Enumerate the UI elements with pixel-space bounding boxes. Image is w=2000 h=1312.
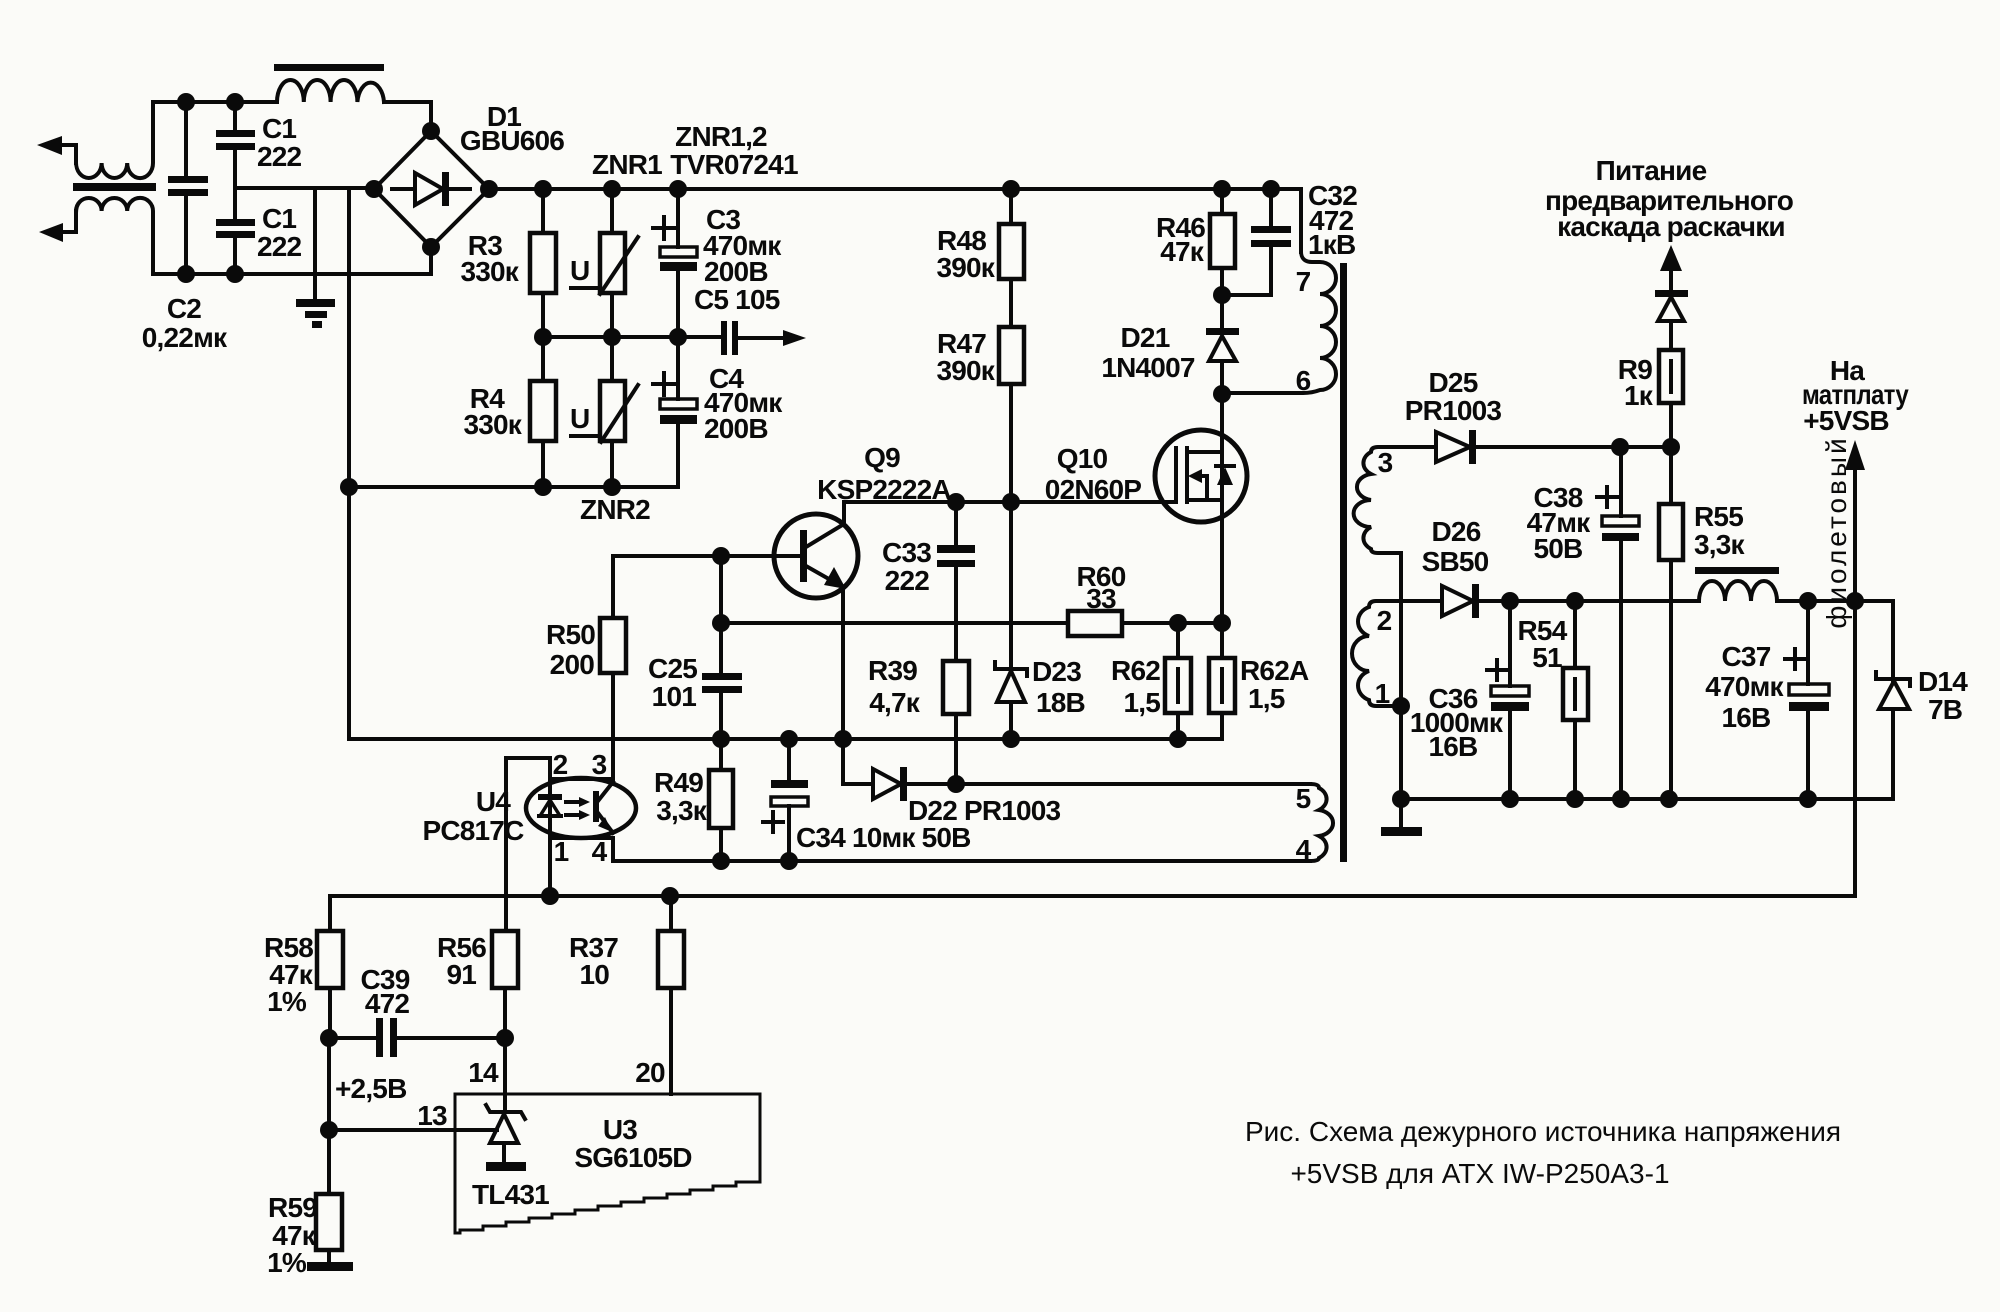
svg-text:472: 472 — [365, 988, 410, 1019]
svg-text:390к: 390к — [936, 252, 995, 283]
svg-text:4,7к: 4,7к — [869, 687, 921, 718]
svg-text:Питание: Питание — [1596, 155, 1707, 186]
C36 plus — [1487, 660, 1507, 680]
AC input arrow N — [39, 223, 63, 242]
svg-text:C34 10мк 50В: C34 10мк 50В — [796, 822, 971, 853]
svg-text:5: 5 — [1296, 783, 1311, 814]
capacitor C34 — [787, 739, 791, 861]
+5VSB feedback rail — [330, 468, 1855, 931]
svg-text:16В: 16В — [1722, 702, 1771, 733]
C37 plus — [1785, 649, 1805, 669]
capacitor C1 top — [233, 102, 237, 188]
diode D25 — [1436, 432, 1470, 462]
svg-text:+5VSB: +5VSB — [1803, 405, 1889, 436]
transformer T1 top winding — [76, 102, 153, 178]
svg-text:91: 91 — [446, 959, 476, 990]
secondary ground — [1399, 799, 1403, 828]
svg-text:6: 6 — [1296, 365, 1311, 396]
capacitor C36 — [1508, 601, 1512, 799]
output inductor core — [1695, 567, 1779, 574]
svg-text:3,3к: 3,3к — [1694, 529, 1746, 560]
Q10 body stub with arrow — [1197, 476, 1207, 500]
svg-text:D25: D25 — [1429, 367, 1478, 398]
pin 13 wire — [329, 1128, 497, 1132]
Q10 gate bar — [1174, 448, 1178, 502]
svg-text:TVR07241: TVR07241 — [670, 149, 798, 180]
svg-text:0,22мк: 0,22мк — [142, 322, 228, 353]
transformer T1 core — [73, 183, 156, 191]
capacitor C4 — [349, 337, 678, 487]
svg-text:ZNR2: ZNR2 — [580, 494, 650, 525]
Q10 body diode — [1216, 464, 1234, 468]
resistor R47 — [999, 327, 1024, 384]
secondary ground bus — [1401, 797, 1893, 801]
gate drive wire (Q9 collector to Q10 gate) — [844, 500, 1176, 504]
svg-text:330к: 330к — [463, 409, 522, 440]
resistor R59 — [327, 1130, 331, 1263]
svg-text:GBU606: GBU606 — [460, 125, 564, 156]
prestage diode — [1669, 268, 1673, 291]
zener D23 — [1009, 502, 1013, 739]
primary winding 7-6 — [1222, 252, 1336, 393]
svg-text:2: 2 — [1377, 605, 1392, 636]
R59 ground — [307, 1262, 353, 1271]
ground G1 — [296, 299, 335, 307]
svg-text:13: 13 — [417, 1100, 447, 1131]
svg-text:20: 20 — [635, 1057, 665, 1088]
svg-text:1N4007: 1N4007 — [1101, 352, 1195, 383]
resistor R9 — [1669, 321, 1673, 447]
capacitor C38 — [1619, 447, 1623, 799]
svg-text:1,5: 1,5 — [1248, 683, 1285, 714]
varistor ZNR1 — [610, 189, 614, 337]
svg-text:18В: 18В — [1036, 687, 1085, 718]
svg-text:Q10: Q10 — [1057, 443, 1108, 474]
svg-text:Рис. Схема дежурного источника: Рис. Схема дежурного источника напряжени… — [1245, 1116, 1841, 1147]
C4 plus — [653, 373, 675, 395]
svg-text:4: 4 — [592, 836, 608, 867]
svg-text:47к: 47к — [1160, 236, 1205, 267]
resistor R49 — [719, 739, 723, 861]
resistor R54 — [1573, 601, 1577, 799]
wire arrowL to winding — [60, 145, 76, 163]
TL431 shunt reference — [486, 1105, 525, 1119]
U4 phototransistor — [593, 791, 599, 822]
top DC bus — [489, 189, 1301, 252]
svg-text:101: 101 — [652, 681, 697, 712]
svg-text:390к: 390к — [936, 355, 995, 386]
U4 pin1 wire — [548, 838, 552, 896]
capacitor C33 — [954, 502, 958, 661]
svg-text:R50: R50 — [546, 619, 595, 650]
resistor R48 — [1009, 189, 1013, 327]
svg-text:200: 200 — [550, 649, 595, 680]
svg-text:R62: R62 — [1111, 655, 1160, 686]
AC input arrow L — [37, 136, 62, 155]
pin 14 wire — [503, 1038, 507, 1112]
svg-text:1: 1 — [1375, 678, 1390, 709]
resistor R46 — [1220, 189, 1224, 295]
svg-text:PC817C: PC817C — [422, 815, 524, 846]
svg-text:R62A: R62A — [1240, 655, 1309, 686]
base bias wire R60 row — [721, 621, 1222, 625]
svg-text:222: 222 — [257, 231, 302, 262]
capacitor C39 — [329, 1036, 505, 1040]
secondary winding 3 — [1354, 447, 1436, 799]
svg-text:222: 222 — [885, 565, 930, 596]
U4 light arrows — [566, 802, 580, 815]
C38 plus — [1597, 487, 1617, 507]
resistor R39 — [943, 661, 969, 714]
svg-text:10: 10 — [579, 959, 609, 990]
svg-text:R59: R59 — [268, 1192, 317, 1223]
svg-text:C37: C37 — [1722, 641, 1771, 672]
svg-text:C1: C1 — [262, 113, 296, 144]
svg-text:U3: U3 — [603, 1114, 637, 1145]
capacitor C1 bottom — [233, 188, 237, 274]
svg-text:TL431: TL431 — [472, 1179, 549, 1210]
D1 internal diode — [392, 187, 470, 191]
resistor R60 — [1068, 611, 1122, 636]
primary winding 5-4 — [1310, 784, 1333, 861]
Q10 source stub — [1187, 498, 1222, 502]
Q9 base wire from R50 — [613, 554, 800, 558]
svg-text:C5 105: C5 105 — [694, 284, 780, 315]
svg-text:Q9: Q9 — [864, 442, 900, 473]
U4 pin4 wire — [611, 838, 615, 861]
svg-text:SB50: SB50 — [1422, 546, 1489, 577]
resistor R55 — [1669, 447, 1673, 799]
transformer core — [1340, 263, 1347, 862]
lower bus (winding4 to U4 pin4) — [613, 859, 1310, 863]
svg-text:D26: D26 — [1432, 516, 1481, 547]
svg-text:7В: 7В — [1928, 694, 1962, 725]
resistor R3 — [541, 189, 545, 337]
diode D22 branch — [843, 739, 873, 784]
svg-text:C25: C25 — [648, 653, 697, 684]
svg-text:U: U — [570, 255, 589, 286]
Q10 drain-source line — [1220, 395, 1224, 623]
svg-text:3,3к: 3,3к — [656, 795, 708, 826]
Q9 emitter arrow — [824, 567, 846, 589]
wire top line to choke — [153, 100, 277, 104]
capacitor C37 — [1806, 601, 1810, 799]
Q9 collector — [806, 502, 844, 547]
MOSFET Q10 circle — [1155, 430, 1247, 522]
svg-text:33: 33 — [1086, 583, 1116, 614]
secondary winding 2-1 — [1352, 601, 1442, 706]
prestage arrow — [1660, 245, 1682, 271]
wire winding to arrow N — [61, 211, 76, 232]
svg-text:1к: 1к — [1624, 380, 1654, 411]
U4 pin2 wire — [506, 758, 550, 931]
ground G1 stem — [313, 188, 317, 301]
svg-text:SG6105D: SG6105D — [574, 1142, 692, 1173]
svg-text:R49: R49 — [654, 767, 703, 798]
svg-text:D21: D21 — [1121, 322, 1170, 353]
resistor R50 — [611, 556, 615, 784]
wire R58 node down — [327, 1038, 331, 1130]
bridge rectifier D1 body — [374, 131, 489, 247]
svg-text:02N60P: 02N60P — [1045, 474, 1142, 505]
svg-text:51: 51 — [1532, 642, 1562, 673]
Q9 emitter — [806, 566, 843, 739]
svg-text:C1: C1 — [262, 203, 296, 234]
common mode choke winding — [277, 80, 384, 102]
svg-text:+2,5В: +2,5В — [335, 1073, 407, 1104]
capacitor C32 — [1222, 189, 1271, 295]
svg-text:7: 7 — [1296, 266, 1311, 297]
resistor R37 — [669, 896, 673, 1094]
resistor R4 — [541, 337, 545, 487]
capacitor C5 — [721, 321, 727, 355]
svg-text:1кВ: 1кВ — [1308, 229, 1355, 260]
U4 LED — [548, 779, 552, 838]
svg-text:1: 1 — [554, 836, 569, 867]
svg-text:50В: 50В — [1534, 533, 1583, 564]
resistor R56 — [492, 931, 518, 988]
svg-text:470мк: 470мк — [1705, 671, 1784, 702]
svg-text:14: 14 — [468, 1057, 499, 1088]
IC U3 SG6105D box — [455, 1094, 760, 1233]
output bus — [1510, 601, 1893, 676]
svg-text:330к: 330к — [460, 256, 519, 287]
svg-text:200В: 200В — [704, 413, 768, 444]
optocoupler U4 body — [526, 778, 636, 838]
mid bus — [543, 335, 722, 339]
capacitor C2 — [184, 102, 188, 274]
zener D14 — [1891, 676, 1895, 799]
diode D21 — [1220, 295, 1224, 395]
svg-text:R55: R55 — [1694, 501, 1743, 532]
svg-text:4: 4 — [1296, 834, 1312, 865]
C5 output arrow — [783, 330, 806, 346]
+5VSB arrow — [1845, 440, 1865, 470]
svg-text:222: 222 — [257, 141, 302, 172]
primary minus rail (long vertical) — [349, 188, 1222, 739]
svg-text:1,5: 1,5 — [1123, 687, 1160, 718]
svg-text:ZNR1,2: ZNR1,2 — [675, 121, 767, 152]
svg-text:3: 3 — [1378, 447, 1393, 478]
capacitor C25 — [719, 556, 723, 739]
Q10 channel bar — [1185, 448, 1189, 502]
svg-text:U4: U4 — [476, 786, 511, 817]
wire C1 mid to bridge left — [235, 186, 374, 190]
resistor R62 — [1176, 623, 1180, 739]
diode D26 — [1442, 586, 1473, 616]
svg-text:R39: R39 — [868, 655, 917, 686]
svg-text:200В: 200В — [704, 256, 768, 287]
svg-text:D23: D23 — [1032, 656, 1081, 687]
svg-text:C2: C2 — [167, 293, 201, 324]
svg-text:+5VSB для ATX IW-P250A3-1: +5VSB для ATX IW-P250A3-1 — [1290, 1158, 1669, 1189]
svg-text:2: 2 — [553, 749, 568, 780]
svg-text:1%: 1% — [267, 1247, 307, 1278]
U4 package chords — [550, 779, 613, 838]
Q9 base bar — [800, 530, 807, 582]
transistor Q9 circle — [774, 514, 858, 598]
common mode choke core — [274, 64, 384, 71]
C3 plus — [653, 217, 675, 239]
svg-text:ZNR1: ZNR1 — [592, 149, 662, 180]
svg-text:U: U — [570, 403, 589, 434]
svg-text:каскада раскачки: каскада раскачки — [1557, 211, 1785, 242]
svg-text:1%: 1% — [267, 986, 307, 1017]
svg-text:D14: D14 — [1918, 666, 1968, 697]
Q10 drain stub — [1187, 450, 1222, 454]
capacitor C3 — [676, 189, 680, 337]
svg-text:PR1003: PR1003 — [1405, 395, 1502, 426]
svg-text:16В: 16В — [1429, 731, 1478, 762]
transformer T1 bottom winding — [76, 198, 153, 274]
resistor R58 — [317, 931, 343, 988]
resistor R62A — [1220, 623, 1224, 658]
svg-text:3: 3 — [592, 749, 607, 780]
wire bottom bus to bridge — [153, 247, 431, 274]
wire choke to bridge top — [384, 102, 431, 131]
C34 plus — [763, 812, 783, 832]
output inductor winding — [1699, 581, 1777, 601]
varistor ZNR2 — [610, 337, 614, 487]
svg-text:C33: C33 — [882, 537, 931, 568]
